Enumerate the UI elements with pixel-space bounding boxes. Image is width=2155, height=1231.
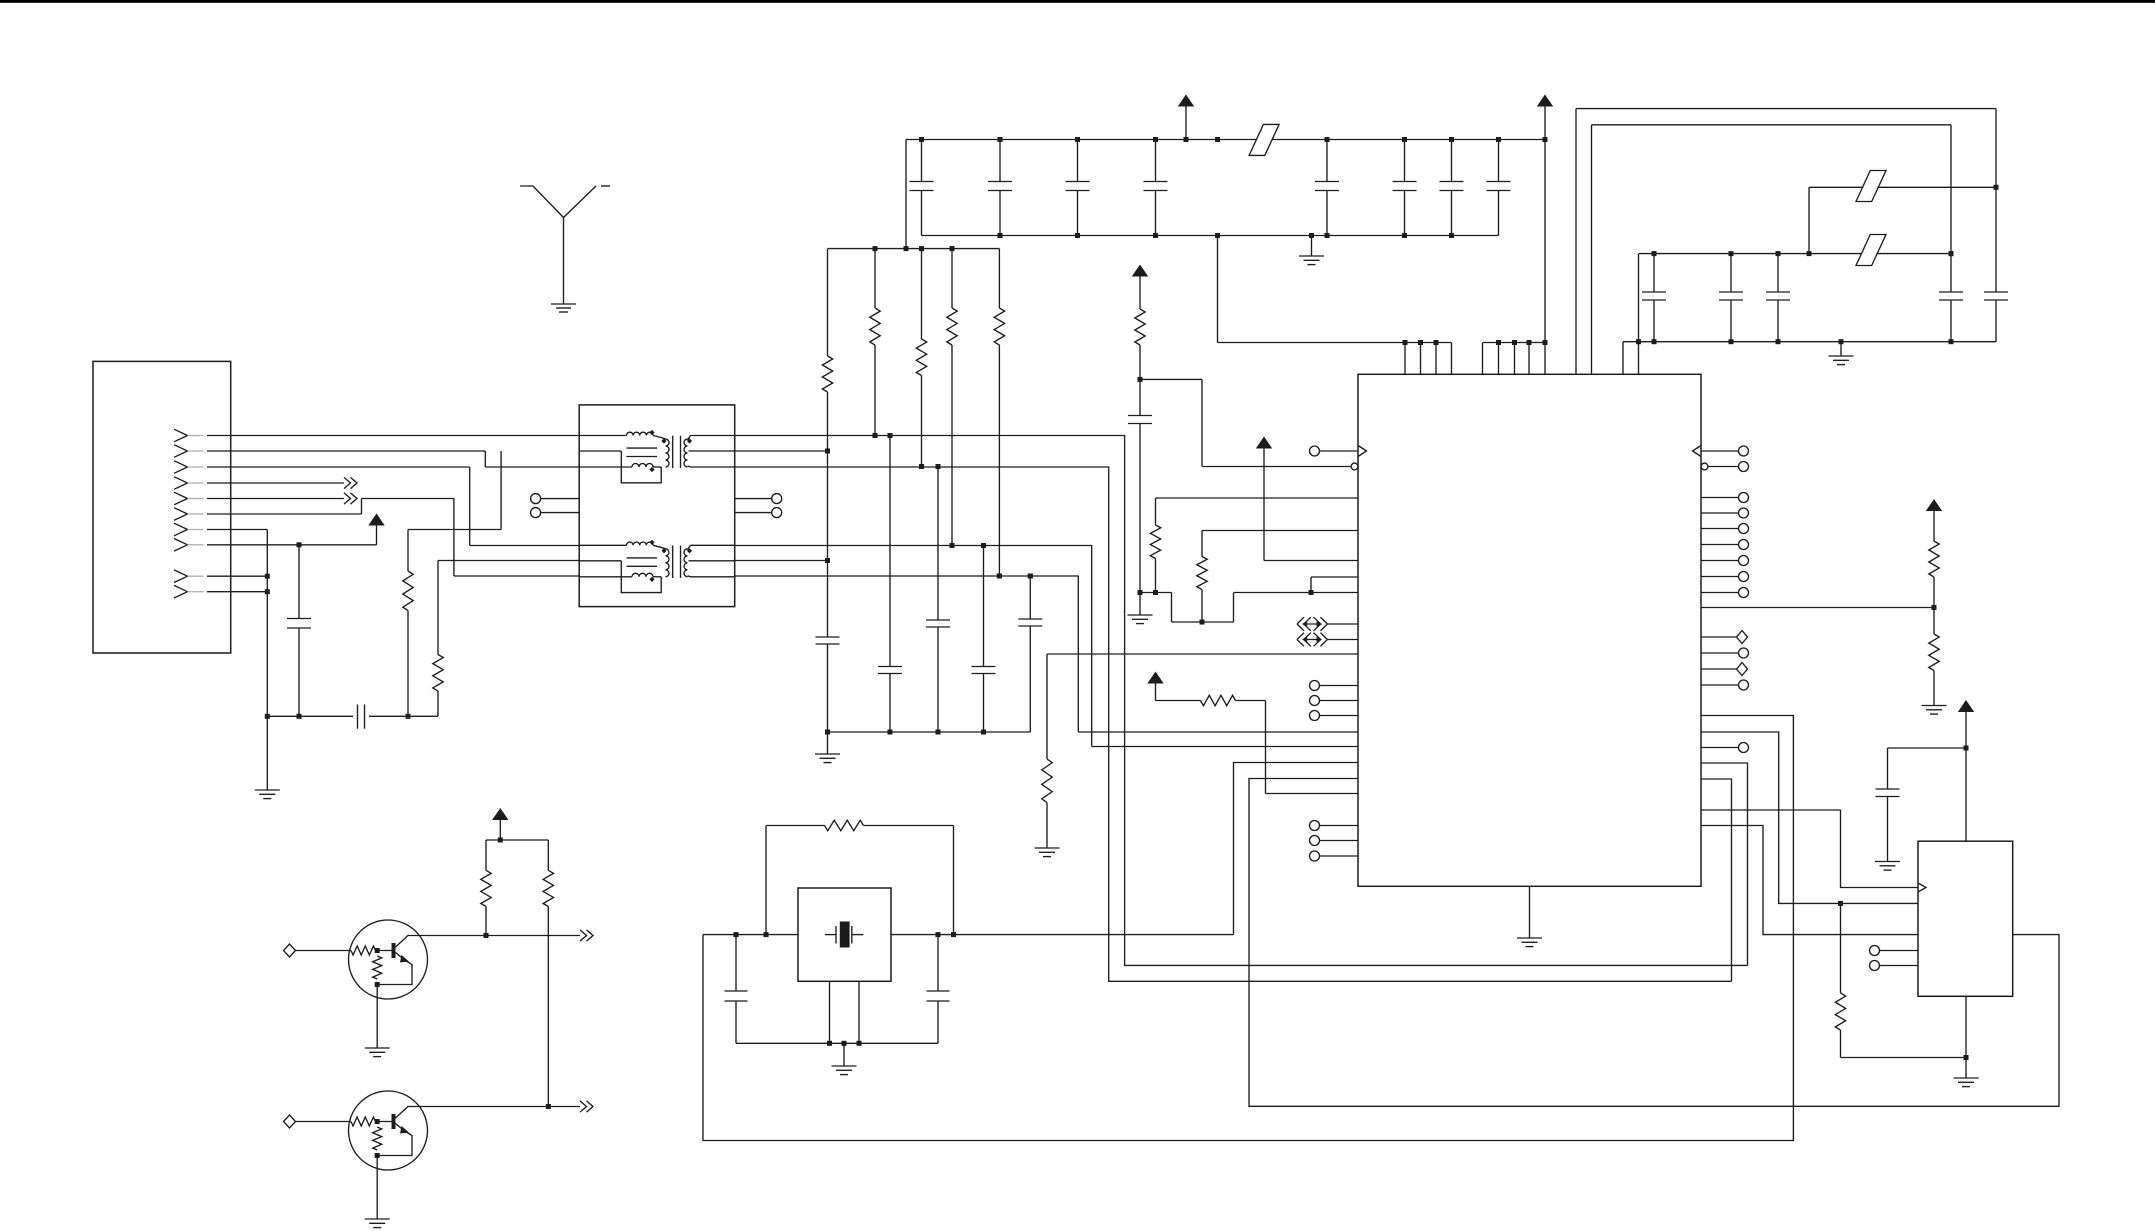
capacitor C4: [1155, 140, 1157, 182]
capacitor C20: [298, 545, 300, 619]
ground (antenna): [551, 303, 576, 305]
wire: [1965, 996, 1967, 1078]
resistor R16: [547, 840, 549, 870]
wire clock net: [1701, 810, 1918, 888]
capacitor C15: [1730, 254, 1732, 292]
wire pin stub: [1482, 343, 1484, 375]
capacitor C19: [1139, 379, 1141, 415]
pin bidir bus: [1297, 633, 1304, 640]
junction: [1839, 339, 1844, 344]
pin circle: [1870, 961, 1880, 971]
junction: [1543, 340, 1548, 345]
wire: [207, 591, 267, 593]
wire TX- net: [735, 467, 1732, 981]
capacitor C11: [936, 464, 941, 469]
junction: [998, 137, 1003, 142]
junction: [1309, 233, 1314, 238]
connector pin: [188, 450, 204, 452]
wire: [362, 498, 454, 500]
wire pin: [1311, 576, 1358, 578]
resistor R8: [1047, 653, 1358, 655]
wire pin stub: [1404, 343, 1406, 375]
junction: [1184, 137, 1189, 142]
junction: [950, 246, 955, 251]
ground: [815, 753, 840, 755]
ground: [1922, 705, 1947, 707]
junction: [981, 543, 986, 548]
pin diamond: [1701, 636, 1737, 638]
wire: [1529, 886, 1531, 938]
pin circle: [531, 508, 541, 518]
connector pin: [188, 466, 204, 468]
capacitor C16: [1777, 254, 1779, 292]
junction: [873, 433, 878, 438]
wire stub arrow: [207, 498, 344, 500]
wire crystal net: [703, 716, 1793, 1141]
wire: [1623, 341, 1996, 343]
wire: [1140, 592, 1172, 594]
ground: [255, 789, 280, 791]
wire: [408, 935, 580, 937]
pin input arrow: [1310, 446, 1320, 456]
wire: [207, 466, 470, 468]
pin circle: [1701, 528, 1739, 530]
junction: [1215, 137, 1220, 142]
wire pin stub: [1420, 343, 1422, 375]
ground: [1299, 255, 1324, 257]
wire: [1234, 763, 1359, 935]
pin bidir bus: [1297, 617, 1304, 624]
wire: [1840, 342, 1842, 356]
junction: [1652, 339, 1657, 344]
connector pin: [188, 482, 204, 484]
junction: [1075, 137, 1080, 142]
capacitor C3: [1077, 140, 1079, 182]
pin circle: [1701, 560, 1739, 562]
resistor R17: [1840, 903, 1842, 993]
wire TX+ net: [735, 436, 1748, 966]
wire stub arrow: [580, 930, 587, 941]
junction: [1153, 233, 1158, 238]
connector pin: [188, 498, 204, 500]
resistor R6: [1156, 497, 1359, 499]
wire: [1576, 108, 1996, 110]
wire: [207, 575, 267, 577]
capacitor C23: [937, 935, 939, 991]
wire: [207, 513, 362, 515]
power VCC arrow 1: [1178, 95, 1194, 107]
wire: [563, 218, 565, 305]
resistor R7: [1202, 530, 1358, 532]
resistor R13: [438, 560, 579, 562]
junction: [1325, 233, 1330, 238]
resistor R11: [1933, 608, 1935, 635]
pin circle: [1701, 592, 1739, 594]
junction: [1512, 340, 1517, 345]
wire pin stub: [1544, 343, 1546, 375]
junction: [1527, 340, 1532, 345]
wire: [1078, 731, 1358, 733]
connector pin: [188, 544, 204, 546]
wire U2 output net: [1249, 779, 2059, 1107]
wire pin stub: [829, 981, 831, 1043]
junction: [1403, 340, 1408, 345]
pin circle: [1310, 821, 1320, 831]
capacitor C18: [1995, 109, 1997, 292]
power VCC arrow 5: [1926, 499, 1942, 511]
junction: [1028, 574, 1033, 579]
pin diamond: [1701, 668, 1737, 670]
pin inversion bubble: [1351, 463, 1358, 470]
jumper FB2: [1856, 171, 1886, 202]
pin clock arrow: [1918, 883, 1926, 892]
junction: [1215, 233, 1220, 238]
wire stub arrow: [207, 482, 344, 484]
transformer T1 winding A/B: [579, 435, 626, 437]
resistor R3: [951, 249, 953, 308]
antenna ANT1: [520, 186, 564, 218]
junction: [265, 714, 270, 719]
capacitor C17: [1950, 125, 1952, 292]
wire: [1701, 763, 1748, 965]
power VCC arrow 6: [368, 514, 384, 526]
pin circle: [1310, 711, 1320, 721]
ground: [1035, 847, 1060, 849]
capacitor C22: [735, 935, 737, 991]
wire: [891, 934, 1234, 936]
pin circle: [1701, 684, 1739, 686]
connector pin: [188, 591, 204, 593]
transformer T1 winding C/D: [579, 544, 626, 546]
pin circle: [531, 494, 541, 504]
ground: [832, 1065, 857, 1067]
connector pin: [188, 575, 204, 577]
junction: [919, 464, 924, 469]
junction: [1449, 137, 1454, 142]
junction: [1776, 339, 1781, 344]
resistor R5: [827, 249, 829, 356]
main IC U1: [1358, 374, 1701, 886]
junction: [1402, 233, 1407, 238]
pin circle: [772, 494, 782, 504]
capacitor C13: [1028, 574, 1033, 579]
wire: [1701, 607, 1934, 609]
wire: [408, 1106, 580, 1108]
wire: [1808, 187, 1810, 253]
pin inversion bubble: [1701, 463, 1708, 470]
wire pin stub: [1528, 343, 1530, 375]
wire: [703, 934, 798, 936]
junction: [950, 543, 955, 548]
wire VDD pin bus: [1217, 236, 1219, 343]
wire TX center tap: [735, 450, 828, 452]
capacitor C1: [921, 140, 923, 182]
wire analog ground rail: [828, 731, 1031, 733]
wire: [843, 1043, 845, 1066]
junction: [1652, 251, 1657, 256]
wire pin stub: [858, 981, 860, 1043]
wire: [207, 529, 267, 531]
capacitor C6: [1404, 140, 1406, 182]
wire pin stub: [1622, 342, 1624, 375]
wire: [486, 839, 548, 841]
ground (U1): [1517, 937, 1542, 939]
junction: [919, 246, 924, 251]
wire pin stub: [1638, 254, 1640, 375]
pin input arrow: [1693, 446, 1702, 457]
junction: [265, 589, 270, 594]
capacitor C10: [888, 433, 893, 438]
ground: [1829, 355, 1854, 357]
oscillator U2: [1918, 841, 2013, 996]
capacitor C7: [1451, 140, 1453, 182]
junction: [997, 574, 1002, 579]
wire ground rail: [922, 235, 1499, 237]
power VCC arrow 4: [1147, 672, 1163, 684]
wire pin stub: [1435, 343, 1437, 375]
pin circle: [1310, 681, 1320, 691]
junction: [1807, 251, 1812, 256]
resistor R1: [874, 249, 876, 308]
junction: [1776, 251, 1781, 256]
wire: [1591, 125, 1593, 374]
power VCC arrow 8: [1958, 700, 1974, 712]
capacitor C9: [816, 636, 840, 638]
crystal module box: [798, 888, 891, 981]
junction: [873, 246, 878, 251]
junction: [1418, 340, 1423, 345]
junction: [1496, 340, 1501, 345]
wire termination rail: [828, 248, 1000, 250]
junction: [1075, 233, 1080, 238]
capacitor C8: [1498, 140, 1500, 182]
wire: [1809, 186, 1996, 188]
wire: [1592, 124, 1952, 126]
junction: [1949, 339, 1954, 344]
wire VDD rail top: [906, 139, 1545, 141]
ground (Q1): [365, 1047, 390, 1049]
junction: [1729, 339, 1734, 344]
resistor R2: [921, 249, 923, 339]
wire RX- net: [735, 576, 1079, 732]
wire RX+ net: [735, 546, 1092, 747]
wire: [207, 450, 485, 452]
power VCC arrow 9: [1132, 265, 1148, 277]
junction: [1434, 340, 1439, 345]
resistor R4: [998, 249, 1000, 308]
wire: [1311, 236, 1313, 257]
wire stub arrow: [580, 1101, 587, 1112]
wire: [207, 435, 579, 437]
junction: [842, 1041, 847, 1046]
power VCC arrow 3: [1256, 437, 1272, 449]
ground (U2): [1954, 1077, 1979, 1079]
junction: [825, 558, 830, 563]
resistor R12: [408, 529, 501, 531]
junction: [919, 137, 924, 142]
junction: [1636, 339, 1641, 344]
transformer T1 box: [579, 405, 735, 607]
wire: [1888, 747, 1967, 749]
wire: [905, 140, 907, 249]
connector J1: [93, 361, 231, 653]
connector pin: [188, 435, 204, 437]
wire nRST net: [1138, 377, 1143, 382]
ground: [1875, 861, 1900, 863]
capacitor C5: [1326, 140, 1328, 182]
capacitor C14: [1653, 254, 1655, 292]
crystal Y1: [825, 934, 836, 936]
wire RX center tap: [735, 560, 828, 562]
resistor R15: [485, 840, 487, 870]
resistor R10: [1929, 541, 1939, 577]
junction: [1325, 137, 1330, 142]
junction: [1153, 137, 1158, 142]
ground: [1128, 614, 1153, 616]
junction: [857, 1041, 862, 1046]
wire: [376, 985, 378, 1049]
wire pin bus: [1483, 342, 1546, 344]
junction: [1543, 137, 1548, 142]
wire: [1701, 826, 1918, 935]
resistor R18: [1135, 309, 1145, 345]
junction: [1449, 233, 1454, 238]
pin circle: [772, 508, 782, 518]
pin circle: [1701, 576, 1739, 578]
junction: [1949, 251, 1954, 256]
jumper FB3: [1856, 235, 1886, 266]
capacitor C21 (series): [267, 715, 353, 717]
power VCC arrow 7: [492, 808, 508, 820]
junction: [764, 932, 769, 937]
junction: [1402, 137, 1407, 142]
wire: [1701, 732, 1918, 903]
wire: [1639, 253, 1951, 255]
pin circle: [1701, 747, 1739, 749]
jumper FB1: [1249, 124, 1279, 155]
ground (Q2): [365, 1218, 390, 1220]
junction: [888, 433, 893, 438]
transistor Q1: [349, 920, 428, 999]
wire: [827, 732, 829, 754]
wire pin stub: [1498, 343, 1500, 375]
junction: [1729, 251, 1734, 256]
connector pin: [188, 513, 204, 515]
wire pin stub: [1451, 343, 1453, 375]
capacitor C12: [981, 543, 986, 548]
junction: [936, 464, 941, 469]
wire: [736, 1042, 938, 1044]
capacitor C2: [999, 140, 1001, 182]
wire pin stub: [1514, 343, 1516, 375]
junction: [827, 1041, 832, 1046]
pin circle: [1701, 497, 1739, 499]
wire: [1575, 109, 1577, 375]
wire: [1701, 779, 1732, 981]
pin circle: [1310, 696, 1320, 706]
junction: [951, 932, 956, 937]
pin circle: [1310, 851, 1320, 861]
power VCC arrow 2: [1537, 95, 1553, 107]
wire: [376, 1156, 378, 1220]
junction: [825, 449, 830, 454]
resistor R9: [1156, 700, 1201, 702]
junction: [998, 233, 1003, 238]
junction: [1496, 137, 1501, 142]
connector pin: [188, 529, 204, 531]
wire: [1092, 746, 1358, 748]
pin circle: [1701, 512, 1739, 514]
resistor R14 (feedback): [765, 826, 767, 935]
pin circle: [1310, 836, 1320, 846]
pin circle: [1870, 946, 1880, 956]
pin circle: [1701, 544, 1739, 546]
transistor Q2: [349, 1091, 428, 1170]
junction: [734, 932, 739, 937]
capacitor C24: [1887, 748, 1889, 789]
junction: [904, 246, 909, 251]
pin circle: [1701, 652, 1739, 654]
junction: [936, 932, 941, 937]
wire: [207, 544, 377, 546]
junction: [265, 574, 270, 579]
